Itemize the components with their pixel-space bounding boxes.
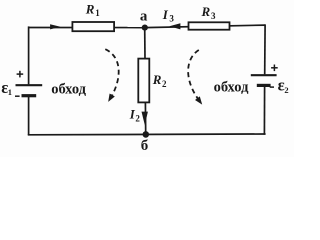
resistor R1 — [72, 1, 114, 31]
svg-text:I: I — [162, 7, 169, 22]
battery E1 short plate (-) — [22, 94, 37, 97]
svg-text:1: 1 — [8, 87, 12, 97]
wire left vertical lower — [28, 97, 30, 135]
label epsilon2 — [278, 76, 289, 95]
node a — [140, 9, 148, 31]
plus sign E1 — [17, 71, 24, 78]
current arrow I1 (unlabeled, top-left wire) — [50, 24, 60, 29]
wire right vertical lower — [263, 86, 265, 134]
wire bottom — [28, 133, 266, 136]
svg-text:R: R — [201, 4, 211, 19]
svg-text:R: R — [152, 72, 162, 87]
svg-text:2: 2 — [284, 85, 288, 95]
svg-text:2: 2 — [135, 114, 140, 124]
svg-text:2: 2 — [162, 79, 167, 89]
resistor R3 — [189, 4, 230, 30]
battery E2 long plate (+) — [251, 74, 277, 76]
minus sign E1 — [15, 95, 20, 97]
svg-text:1: 1 — [95, 8, 100, 18]
svg-text:a: a — [140, 9, 148, 25]
wire right vertical upper — [264, 24, 266, 74]
battery E1 long plate (+) — [16, 84, 43, 86]
svg-text:обход: обход — [51, 81, 86, 97]
plus sign E2 — [271, 65, 278, 72]
svg-text:3: 3 — [169, 14, 174, 24]
loop arrow right (dashed arc) — [188, 50, 202, 105]
wire left vertical upper — [28, 26, 30, 84]
battery E2 short plate (-) — [257, 84, 271, 87]
minus sign E2 — [270, 86, 274, 88]
svg-text:б: б — [141, 138, 149, 154]
label epsilon1 — [1, 78, 12, 97]
svg-text:обход: обход — [214, 80, 249, 96]
current arrow I2 — [129, 107, 148, 125]
current arrow I3 — [162, 7, 181, 30]
wire center branch — [145, 28, 146, 135]
node b (б) — [141, 131, 149, 154]
wire top right segment — [145, 25, 266, 28]
svg-text:R: R — [85, 1, 95, 16]
resistor R2 — [138, 59, 167, 103]
wire top left segment — [28, 27, 146, 29]
loop arrow left (dashed arc, clockwise) — [105, 49, 118, 102]
svg-text:3: 3 — [211, 11, 216, 21]
